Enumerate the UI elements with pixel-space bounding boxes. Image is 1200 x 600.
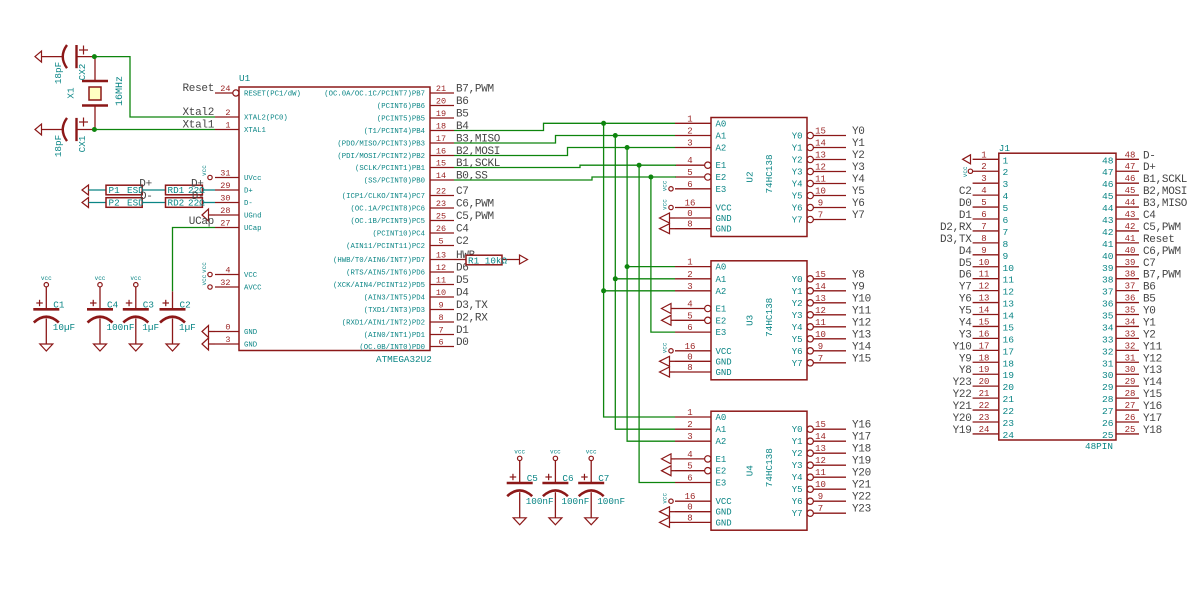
svg-text:A2: A2 xyxy=(716,437,727,447)
svg-text:3: 3 xyxy=(687,139,692,149)
svg-text:10: 10 xyxy=(815,187,826,197)
svg-text:Y15: Y15 xyxy=(852,353,871,365)
svg-text:B2,MOSI: B2,MOSI xyxy=(456,146,500,158)
svg-text:D3,TX: D3,TX xyxy=(456,300,488,312)
svg-text:vcc: vcc xyxy=(661,342,668,353)
svg-text:B7,PWM: B7,PWM xyxy=(456,84,494,96)
svg-text:U3: U3 xyxy=(745,315,756,326)
svg-text:17: 17 xyxy=(1003,346,1015,357)
svg-text:Y3: Y3 xyxy=(852,162,865,174)
svg-text:Y23: Y23 xyxy=(953,377,972,389)
svg-text:9: 9 xyxy=(438,301,443,311)
svg-text:20: 20 xyxy=(436,97,446,107)
svg-text:C4: C4 xyxy=(456,224,469,236)
svg-text:22: 22 xyxy=(979,401,990,411)
svg-text:25: 25 xyxy=(1102,430,1114,441)
svg-text:33: 33 xyxy=(1102,334,1114,345)
svg-text:Reset: Reset xyxy=(182,83,214,95)
svg-text:A0: A0 xyxy=(716,413,727,423)
svg-text:1: 1 xyxy=(687,408,692,418)
svg-text:40: 40 xyxy=(1125,246,1136,256)
svg-text:23: 23 xyxy=(979,413,990,423)
svg-text:9: 9 xyxy=(818,342,823,352)
svg-text:A2: A2 xyxy=(716,144,727,154)
svg-text:16: 16 xyxy=(436,147,446,157)
svg-text:10: 10 xyxy=(815,330,826,340)
svg-text:(XCK/AIN4/PCINT12)PD5: (XCK/AIN4/PCINT12)PD5 xyxy=(333,282,425,290)
svg-text:14: 14 xyxy=(815,282,826,292)
svg-text:7: 7 xyxy=(818,354,823,364)
svg-text:(OC.1B/PCINT9)PC5: (OC.1B/PCINT9)PC5 xyxy=(351,218,425,226)
svg-text:42: 42 xyxy=(1102,227,1114,238)
svg-text:R1 10kΩ: R1 10kΩ xyxy=(468,256,507,267)
svg-text:VCC: VCC xyxy=(716,204,733,214)
svg-text:38: 38 xyxy=(1125,270,1136,280)
svg-text:0: 0 xyxy=(687,503,692,513)
svg-text:16: 16 xyxy=(685,342,696,352)
svg-text:29: 29 xyxy=(1125,377,1136,387)
svg-text:31: 31 xyxy=(220,169,230,179)
svg-text:2: 2 xyxy=(981,162,986,172)
svg-text:(HWB/T0/AIN6/INT7)PD7: (HWB/T0/AIN6/INT7)PD7 xyxy=(333,257,425,265)
svg-text:GND: GND xyxy=(244,342,258,350)
svg-text:GND: GND xyxy=(716,357,732,367)
svg-text:14: 14 xyxy=(815,432,826,442)
svg-text:2: 2 xyxy=(687,420,692,430)
svg-text:74HC138: 74HC138 xyxy=(764,298,775,337)
svg-text:D0: D0 xyxy=(959,198,972,210)
svg-text:C5: C5 xyxy=(527,473,538,484)
svg-text:UCap: UCap xyxy=(244,225,262,233)
svg-text:Y23: Y23 xyxy=(852,504,871,516)
svg-text:10µF: 10µF xyxy=(53,322,75,333)
svg-text:18pF: 18pF xyxy=(53,135,64,157)
svg-text:27: 27 xyxy=(1102,406,1114,417)
svg-text:26: 26 xyxy=(436,224,446,234)
svg-text:B6: B6 xyxy=(456,96,469,108)
svg-text:28: 28 xyxy=(1102,394,1114,405)
svg-text:D+: D+ xyxy=(191,179,204,191)
svg-text:7: 7 xyxy=(438,326,443,336)
svg-text:20: 20 xyxy=(1003,382,1015,393)
svg-text:27: 27 xyxy=(220,219,230,229)
svg-text:Y5: Y5 xyxy=(792,335,803,345)
svg-text:30: 30 xyxy=(220,194,230,204)
svg-text:4: 4 xyxy=(1003,191,1009,202)
svg-text:Y4: Y4 xyxy=(792,180,803,190)
svg-text:35: 35 xyxy=(1102,311,1114,322)
svg-text:Y6: Y6 xyxy=(792,497,803,507)
svg-text:26: 26 xyxy=(1125,413,1136,423)
svg-text:36: 36 xyxy=(1102,299,1114,310)
svg-text:7: 7 xyxy=(981,222,986,232)
svg-text:E1: E1 xyxy=(716,455,727,465)
svg-text:Y6: Y6 xyxy=(792,204,803,214)
svg-text:C7: C7 xyxy=(1143,258,1156,270)
svg-text:(OC.1A/PCINT8)PC6: (OC.1A/PCINT8)PC6 xyxy=(351,206,425,214)
svg-text:Y1: Y1 xyxy=(792,144,803,154)
svg-text:vcc: vcc xyxy=(201,165,208,176)
svg-text:10: 10 xyxy=(979,258,990,268)
svg-text:Y8: Y8 xyxy=(959,365,972,377)
svg-text:43: 43 xyxy=(1125,210,1136,220)
svg-text:U1: U1 xyxy=(239,73,251,84)
svg-text:D2,RX: D2,RX xyxy=(456,313,488,325)
svg-text:Y6: Y6 xyxy=(959,294,972,306)
svg-text:Y22: Y22 xyxy=(852,492,871,504)
svg-text:16: 16 xyxy=(979,329,990,339)
svg-text:Y6: Y6 xyxy=(792,347,803,357)
svg-text:Y3: Y3 xyxy=(792,168,803,178)
svg-text:vcc: vcc xyxy=(962,166,969,177)
svg-text:C6,PWM: C6,PWM xyxy=(456,199,494,211)
svg-text:43: 43 xyxy=(1102,215,1114,226)
svg-text:Y7: Y7 xyxy=(959,282,972,294)
svg-text:Y0: Y0 xyxy=(792,275,803,285)
svg-text:7: 7 xyxy=(818,504,823,514)
svg-text:X1: X1 xyxy=(66,87,77,99)
svg-text:vcc: vcc xyxy=(550,449,561,456)
svg-text:32: 32 xyxy=(1102,346,1114,357)
svg-text:3: 3 xyxy=(687,432,692,442)
svg-text:vcc: vcc xyxy=(661,180,668,191)
svg-text:45: 45 xyxy=(1125,186,1136,196)
svg-text:Y2: Y2 xyxy=(852,150,865,162)
svg-text:Y8: Y8 xyxy=(852,269,865,281)
svg-text:9: 9 xyxy=(818,492,823,502)
svg-text:100nF: 100nF xyxy=(561,496,589,507)
svg-text:15: 15 xyxy=(979,317,990,327)
svg-text:6: 6 xyxy=(687,180,692,190)
svg-text:18: 18 xyxy=(1003,358,1015,369)
svg-text:48: 48 xyxy=(1102,155,1114,166)
svg-text:C1: C1 xyxy=(53,300,65,311)
svg-text:100nF: 100nF xyxy=(526,496,554,507)
svg-text:GND: GND xyxy=(716,518,732,528)
svg-text:Y21: Y21 xyxy=(852,480,872,492)
svg-text:UCap: UCap xyxy=(189,216,214,228)
svg-text:vcc: vcc xyxy=(661,199,668,210)
svg-text:Y5: Y5 xyxy=(792,192,803,202)
svg-text:B3,MISO: B3,MISO xyxy=(1143,198,1188,210)
svg-text:10: 10 xyxy=(815,480,826,490)
svg-text:B0,SS: B0,SS xyxy=(456,171,488,183)
svg-text:RD1: RD1 xyxy=(168,185,185,196)
svg-text:Y7: Y7 xyxy=(792,359,803,369)
svg-text:VCC: VCC xyxy=(716,497,733,507)
svg-text:13: 13 xyxy=(1003,299,1015,310)
svg-text:22: 22 xyxy=(1003,406,1015,417)
svg-text:C4: C4 xyxy=(1143,210,1156,222)
svg-text:D+: D+ xyxy=(1143,162,1156,174)
svg-text:D4: D4 xyxy=(456,288,469,300)
svg-text:Y12: Y12 xyxy=(1143,353,1162,365)
svg-text:1: 1 xyxy=(1003,155,1009,166)
svg-text:47: 47 xyxy=(1102,167,1114,178)
svg-text:11: 11 xyxy=(815,175,826,185)
svg-text:28: 28 xyxy=(220,206,230,216)
svg-text:45: 45 xyxy=(1102,191,1114,202)
svg-text:21: 21 xyxy=(436,84,446,94)
svg-text:74HC138: 74HC138 xyxy=(764,154,775,193)
svg-text:48: 48 xyxy=(1125,150,1136,160)
svg-text:A1: A1 xyxy=(716,132,727,142)
svg-text:18: 18 xyxy=(436,122,446,132)
svg-text:VCC: VCC xyxy=(716,347,733,357)
svg-text:15: 15 xyxy=(815,420,826,430)
svg-text:4: 4 xyxy=(225,266,230,276)
svg-text:Y1: Y1 xyxy=(852,138,865,150)
svg-text:0: 0 xyxy=(687,209,692,219)
svg-text:6: 6 xyxy=(687,474,692,484)
svg-text:Y4: Y4 xyxy=(792,473,803,483)
svg-text:C5,PWM: C5,PWM xyxy=(456,211,494,223)
svg-text:B6: B6 xyxy=(1143,282,1156,294)
svg-text:8: 8 xyxy=(687,513,692,523)
svg-text:GND: GND xyxy=(716,508,732,518)
svg-text:Y0: Y0 xyxy=(792,132,803,142)
svg-text:4: 4 xyxy=(687,300,692,310)
svg-text:8: 8 xyxy=(687,363,692,373)
svg-text:2: 2 xyxy=(1003,167,1009,178)
svg-text:Y4: Y4 xyxy=(959,317,972,329)
svg-text:1: 1 xyxy=(687,114,692,124)
svg-text:11: 11 xyxy=(436,276,446,286)
svg-text:16: 16 xyxy=(685,199,696,209)
svg-text:Y16: Y16 xyxy=(1143,401,1162,413)
svg-text:Y9: Y9 xyxy=(959,353,972,365)
svg-text:5: 5 xyxy=(981,198,986,208)
svg-text:C7: C7 xyxy=(598,473,609,484)
svg-text:J1: J1 xyxy=(999,143,1011,154)
svg-text:(ICP1/CLKO/INT4)PC7: (ICP1/CLKO/INT4)PC7 xyxy=(342,193,425,201)
svg-text:2: 2 xyxy=(225,108,230,118)
svg-text:38: 38 xyxy=(1102,275,1114,286)
svg-text:9: 9 xyxy=(981,246,986,256)
svg-text:Y1: Y1 xyxy=(792,437,803,447)
svg-text:(AIN11/PCINT11)PC2: (AIN11/PCINT11)PC2 xyxy=(346,243,425,251)
svg-text:D-: D- xyxy=(1143,150,1156,162)
svg-text:20: 20 xyxy=(979,377,990,387)
svg-text:17: 17 xyxy=(436,134,446,144)
svg-text:Y2: Y2 xyxy=(792,449,803,459)
svg-text:4: 4 xyxy=(687,156,692,166)
svg-text:B1,SCKL: B1,SCKL xyxy=(456,158,500,170)
svg-text:26: 26 xyxy=(1102,418,1114,429)
svg-text:12: 12 xyxy=(436,263,446,273)
svg-text:15: 15 xyxy=(436,159,446,169)
svg-text:Y21: Y21 xyxy=(953,401,973,413)
svg-text:Y19: Y19 xyxy=(852,456,871,468)
svg-text:U4: U4 xyxy=(745,465,756,477)
svg-text:3: 3 xyxy=(981,174,986,184)
svg-text:(PDO/MISO/PCINT3)PB3: (PDO/MISO/PCINT3)PB3 xyxy=(337,141,425,149)
svg-text:(OC.0A/OC.1C/PCINT7)PB7: (OC.0A/OC.1C/PCINT7)PB7 xyxy=(324,91,425,99)
svg-text:D5: D5 xyxy=(959,258,972,270)
svg-text:5: 5 xyxy=(687,311,692,321)
svg-text:Y2: Y2 xyxy=(792,299,803,309)
svg-text:11: 11 xyxy=(979,270,990,280)
svg-text:9: 9 xyxy=(1003,251,1009,262)
svg-text:5: 5 xyxy=(687,462,692,472)
svg-text:Y7: Y7 xyxy=(852,210,865,222)
svg-text:A1: A1 xyxy=(716,275,727,285)
svg-text:Y18: Y18 xyxy=(1143,425,1162,437)
svg-text:D+: D+ xyxy=(139,179,152,191)
svg-text:10: 10 xyxy=(436,288,446,298)
svg-text:34: 34 xyxy=(1102,322,1114,333)
svg-text:AVCC: AVCC xyxy=(244,285,262,293)
svg-text:32: 32 xyxy=(220,278,230,288)
svg-text:Y11: Y11 xyxy=(1143,341,1163,353)
svg-text:E3: E3 xyxy=(716,185,727,195)
svg-text:Y11: Y11 xyxy=(852,305,872,317)
svg-text:8: 8 xyxy=(981,234,986,244)
svg-text:3: 3 xyxy=(225,335,230,345)
svg-text:D1: D1 xyxy=(456,325,469,337)
svg-text:Y10: Y10 xyxy=(852,293,871,305)
svg-text:32: 32 xyxy=(1125,341,1136,351)
svg-text:24: 24 xyxy=(220,84,230,94)
svg-text:Y3: Y3 xyxy=(792,311,803,321)
svg-text:14: 14 xyxy=(436,171,446,181)
svg-text:18pF: 18pF xyxy=(53,62,64,84)
svg-text:D-: D- xyxy=(140,191,153,203)
svg-text:B3,MISO: B3,MISO xyxy=(456,134,501,146)
svg-text:D1: D1 xyxy=(959,210,972,222)
svg-text:1: 1 xyxy=(981,150,986,160)
svg-text:22: 22 xyxy=(436,187,446,197)
svg-text:Y7: Y7 xyxy=(792,509,803,519)
svg-text:19: 19 xyxy=(436,109,446,119)
svg-text:(PCINT10)PC4: (PCINT10)PC4 xyxy=(372,231,425,239)
svg-text:4: 4 xyxy=(981,186,986,196)
svg-text:12: 12 xyxy=(815,163,826,173)
svg-text:12: 12 xyxy=(1003,287,1015,298)
svg-text:36: 36 xyxy=(1125,294,1136,304)
svg-text:E2: E2 xyxy=(716,173,727,183)
svg-text:Y0: Y0 xyxy=(852,126,865,138)
svg-text:16: 16 xyxy=(1003,334,1015,345)
svg-text:Y0: Y0 xyxy=(1143,306,1156,318)
svg-text:15: 15 xyxy=(1003,322,1015,333)
svg-text:1: 1 xyxy=(225,121,230,131)
svg-text:40: 40 xyxy=(1102,251,1114,262)
svg-text:(AIN3/INT5)PD4: (AIN3/INT5)PD4 xyxy=(364,295,426,303)
svg-text:24: 24 xyxy=(1003,430,1015,441)
svg-text:Y13: Y13 xyxy=(852,329,871,341)
svg-text:6: 6 xyxy=(981,210,986,220)
svg-text:C5,PWM: C5,PWM xyxy=(1143,222,1181,234)
svg-text:7: 7 xyxy=(818,211,823,221)
svg-text:E1: E1 xyxy=(716,161,727,171)
svg-text:11: 11 xyxy=(815,318,826,328)
svg-text:19: 19 xyxy=(1003,370,1015,381)
svg-text:21: 21 xyxy=(979,389,990,399)
svg-text:4: 4 xyxy=(687,450,692,460)
svg-text:XTAL2(PC0): XTAL2(PC0) xyxy=(244,115,288,123)
svg-text:E2: E2 xyxy=(716,316,727,326)
svg-text:12: 12 xyxy=(815,306,826,316)
svg-text:19: 19 xyxy=(979,365,990,375)
svg-text:(SS/PCINT0)PB0: (SS/PCINT0)PB0 xyxy=(364,178,425,186)
svg-text:7: 7 xyxy=(1003,227,1009,238)
svg-text:UGnd: UGnd xyxy=(244,213,262,221)
svg-text:E1: E1 xyxy=(716,305,727,315)
svg-text:25: 25 xyxy=(1125,425,1136,435)
svg-text:28: 28 xyxy=(1125,389,1136,399)
svg-text:(TXD1/INT3)PD3: (TXD1/INT3)PD3 xyxy=(364,307,425,315)
svg-text:Y12: Y12 xyxy=(852,317,871,329)
svg-text:E3: E3 xyxy=(716,479,727,489)
svg-text:C2: C2 xyxy=(456,236,469,248)
svg-text:P1: P1 xyxy=(109,185,121,196)
svg-text:UVcc: UVcc xyxy=(244,175,262,183)
svg-text:(PCINT5)PB5: (PCINT5)PB5 xyxy=(377,116,425,124)
svg-text:48PIN: 48PIN xyxy=(1085,441,1113,452)
svg-text:Y7: Y7 xyxy=(792,216,803,226)
svg-text:RD2: RD2 xyxy=(168,198,185,209)
svg-text:5: 5 xyxy=(687,168,692,178)
svg-text:C7: C7 xyxy=(456,186,469,198)
svg-text:vcc: vcc xyxy=(130,275,141,282)
svg-text:GND: GND xyxy=(716,368,732,378)
svg-text:46: 46 xyxy=(1125,174,1136,184)
svg-text:100nF: 100nF xyxy=(597,496,625,507)
svg-text:Y17: Y17 xyxy=(1143,413,1162,425)
svg-text:vcc: vcc xyxy=(201,262,208,273)
svg-text:B7,PWM: B7,PWM xyxy=(1143,270,1181,282)
svg-text:6: 6 xyxy=(438,338,443,348)
svg-text:Y17: Y17 xyxy=(852,432,871,444)
svg-text:2: 2 xyxy=(687,127,692,137)
svg-text:17: 17 xyxy=(979,341,990,351)
svg-text:16: 16 xyxy=(685,492,696,502)
svg-text:Y1: Y1 xyxy=(1143,317,1156,329)
svg-text:3: 3 xyxy=(687,282,692,292)
svg-text:Y3: Y3 xyxy=(792,461,803,471)
svg-text:C4: C4 xyxy=(107,300,119,311)
svg-text:0: 0 xyxy=(687,352,692,362)
svg-text:14: 14 xyxy=(815,139,826,149)
svg-text:13: 13 xyxy=(815,294,826,304)
svg-text:Y10: Y10 xyxy=(953,341,972,353)
svg-text:XTAL1: XTAL1 xyxy=(244,127,267,135)
svg-text:A0: A0 xyxy=(716,119,727,129)
svg-text:GND: GND xyxy=(716,225,732,235)
svg-text:13: 13 xyxy=(815,151,826,161)
svg-text:Reset: Reset xyxy=(1143,234,1175,246)
svg-text:Y2: Y2 xyxy=(1143,329,1156,341)
svg-text:6: 6 xyxy=(687,323,692,333)
svg-text:C3: C3 xyxy=(143,300,154,311)
svg-text:44: 44 xyxy=(1125,198,1136,208)
svg-text:29: 29 xyxy=(1102,382,1114,393)
svg-text:B2,MOSI: B2,MOSI xyxy=(1143,186,1187,198)
svg-text:5: 5 xyxy=(1003,203,1009,214)
svg-text:(SCLK/PCINT1)PB1: (SCLK/PCINT1)PB1 xyxy=(355,165,426,173)
svg-text:Y6: Y6 xyxy=(852,198,865,210)
svg-text:2: 2 xyxy=(687,270,692,280)
svg-text:24: 24 xyxy=(979,425,990,435)
svg-text:Y1: Y1 xyxy=(792,287,803,297)
svg-text:18: 18 xyxy=(979,353,990,363)
svg-text:vcc: vcc xyxy=(586,449,597,456)
svg-text:41: 41 xyxy=(1102,239,1114,250)
svg-text:Y20: Y20 xyxy=(852,468,871,480)
svg-text:Y9: Y9 xyxy=(852,281,865,293)
svg-text:D4: D4 xyxy=(959,246,972,258)
